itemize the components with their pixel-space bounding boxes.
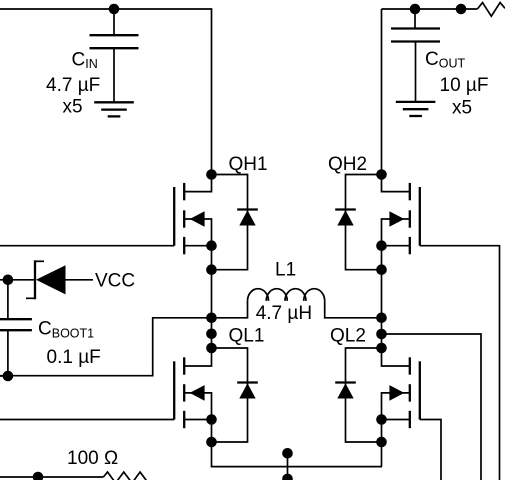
svg-text:x5: x5 bbox=[63, 96, 83, 117]
svg-text:CIN: CIN bbox=[72, 49, 98, 71]
svg-text:0.1 µF: 0.1 µF bbox=[47, 347, 101, 368]
svg-text:QH1: QH1 bbox=[229, 154, 268, 175]
svg-text:QH2: QH2 bbox=[328, 154, 367, 175]
svg-text:4.7 µF: 4.7 µF bbox=[46, 75, 100, 96]
svg-text:10 µF: 10 µF bbox=[440, 75, 489, 96]
svg-text:L1: L1 bbox=[275, 260, 296, 281]
svg-text:QL2: QL2 bbox=[330, 326, 366, 347]
svg-text:CBOOT1: CBOOT1 bbox=[38, 318, 94, 340]
svg-text:COUT: COUT bbox=[425, 49, 465, 71]
svg-text:QL1: QL1 bbox=[229, 326, 265, 347]
svg-text:100 Ω: 100 Ω bbox=[67, 448, 118, 469]
svg-text:x5: x5 bbox=[452, 97, 472, 118]
svg-text:VCC: VCC bbox=[95, 270, 135, 291]
svg-text:4.7 µH: 4.7 µH bbox=[256, 303, 312, 324]
